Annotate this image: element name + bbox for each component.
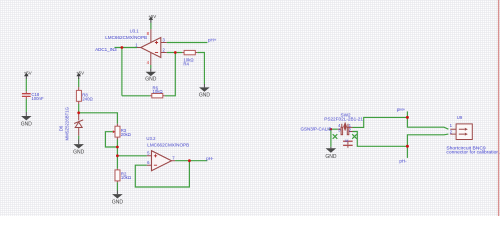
- svg-text:20kΩ: 20kΩ: [121, 132, 132, 137]
- svg-text:R4: R4: [183, 62, 189, 67]
- svg-text:+5V: +5V: [148, 14, 156, 19]
- svg-text:pH-: pH-: [206, 156, 214, 161]
- svg-text:ADC1_IN3: ADC1_IN3: [95, 47, 117, 52]
- svg-text:connector for calibration.: connector for calibration.: [446, 150, 500, 156]
- svg-text:+5V: +5V: [76, 70, 84, 75]
- svg-text:D6: D6: [59, 125, 64, 131]
- svg-text:PS22F02L-2B1-21: PS22F02L-2B1-21: [324, 117, 363, 122]
- svg-text:pH+: pH+: [208, 38, 217, 43]
- svg-text:LMC662CMX/NOPB: LMC662CMX/NOPB: [147, 143, 189, 148]
- svg-text:10kΩ: 10kΩ: [121, 175, 132, 180]
- svg-text:pH-: pH-: [399, 159, 407, 164]
- svg-text:GND: GND: [112, 200, 124, 206]
- svg-text:M: M: [345, 139, 348, 143]
- svg-text:GND: GND: [199, 92, 211, 98]
- svg-text:240Ω: 240Ω: [82, 96, 93, 101]
- svg-text:GSN3/P-CALIB: GSN3/P-CALIB: [301, 126, 332, 131]
- svg-text:MMSZ5226BT1G: MMSZ5226BT1G: [64, 106, 69, 140]
- svg-text:U3.2: U3.2: [146, 136, 156, 141]
- svg-text:U3.1: U3.1: [130, 28, 140, 33]
- svg-text:10kΩ: 10kΩ: [153, 89, 164, 94]
- svg-text:GND: GND: [73, 150, 85, 156]
- svg-text:100nF: 100nF: [31, 96, 44, 101]
- svg-text:GND: GND: [21, 121, 33, 127]
- svg-text:LMC662CMX/NOPB: LMC662CMX/NOPB: [105, 35, 147, 40]
- svg-text:+5V: +5V: [24, 70, 32, 75]
- svg-text:GND: GND: [145, 76, 157, 82]
- svg-text:U9: U9: [457, 115, 463, 120]
- svg-text:GND: GND: [325, 154, 337, 160]
- svg-text:pH+: pH+: [397, 107, 406, 112]
